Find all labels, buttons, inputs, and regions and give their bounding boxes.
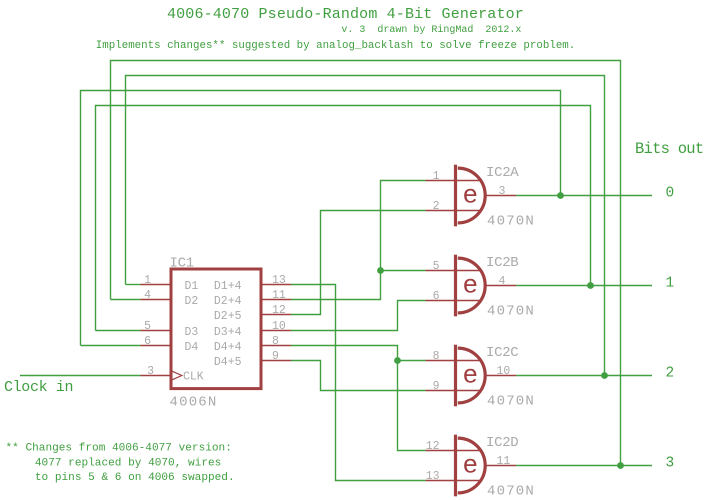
pin 3 output stub (486, 195, 516, 197)
pin 1 stub (426, 180, 482, 182)
pin 10 stub (262, 330, 291, 332)
junction dot bit3 (617, 462, 624, 469)
svg-text:13: 13 (272, 274, 286, 287)
IC1 shift register 4006N (141, 256, 292, 411)
svg-text:1: 1 (666, 276, 675, 292)
svg-text:2: 2 (433, 200, 440, 213)
svg-text:v. 3 drawn by RingMad 2012.x: v. 3 drawn by RingMad 2012.x (341, 24, 521, 36)
svg-text:D1: D1 (185, 280, 199, 293)
svg-text:10: 10 (272, 320, 286, 333)
junction dot bit1 (587, 282, 594, 289)
svg-text:IC2D: IC2D (486, 435, 518, 451)
IC1 body box (171, 269, 261, 389)
wire net IC1 pin 12 to IC2A pin 2 (291, 211, 426, 315)
svg-text:D2+4: D2+4 (214, 295, 242, 308)
wire to IC1 pin 6 (81, 345, 141, 347)
junction dot (394, 357, 401, 364)
svg-text:Implements changes** suggested: Implements changes** suggested by analog… (96, 40, 575, 52)
pin 8 stub (262, 345, 291, 347)
wire bit1 output row (516, 285, 652, 287)
wire to IC1 pin 4 (111, 299, 141, 301)
gate input bar (454, 435, 457, 497)
wire net IC1 pin 9 to IC2C pin 9 (291, 361, 426, 391)
wire bit0 output row (516, 195, 652, 197)
svg-text:4: 4 (499, 275, 506, 288)
svg-text:2: 2 (666, 366, 675, 382)
svg-text:0: 0 (666, 186, 675, 202)
svg-text:6: 6 (144, 335, 151, 348)
svg-text:3: 3 (499, 185, 506, 198)
svg-text:** Changes from 4006-4077 vers: ** Changes from 4006-4077 version: (6, 443, 232, 455)
pin 6 stub (426, 300, 482, 302)
pin 12 stub (262, 314, 291, 316)
svg-text:4070N: 4070N (487, 394, 535, 410)
svg-text:to pins 5 & 6 on 4006 swapped.: to pins 5 & 6 on 4006 swapped. (35, 472, 235, 484)
svg-text:IC1: IC1 (170, 256, 194, 272)
wire net IC1 pin 8 to IC2C pin 8 and IC2D pin 12 (291, 346, 426, 451)
svg-text:4070N: 4070N (487, 484, 535, 500)
pin 5 stub (426, 270, 482, 272)
svg-text:D1+4: D1+4 (214, 280, 242, 293)
svg-text:e: e (463, 450, 479, 480)
pin 11 stub (262, 299, 291, 301)
XOR gate IC2B (426, 255, 536, 320)
wire net IC1 pin 13 to IC2D pin 13 (291, 285, 426, 481)
pin 12 stub (426, 450, 482, 452)
svg-text:8: 8 (433, 350, 440, 363)
svg-text:10: 10 (497, 365, 511, 378)
svg-text:12: 12 (426, 440, 440, 453)
svg-text:D4+4: D4+4 (214, 341, 242, 354)
pin 10 output stub (486, 375, 516, 377)
wire rail2 feedback net to pin 1 and bit 2 (126, 76, 605, 376)
svg-text:D3+4: D3+4 (214, 326, 242, 339)
gate body arc (458, 258, 485, 313)
wire rail3 feedback net to pin 6 and bit 0 (81, 91, 561, 346)
gate input bar (454, 255, 457, 317)
svg-text:8: 8 (272, 335, 279, 348)
pin 6 stub (141, 345, 171, 347)
svg-text:e: e (463, 360, 479, 390)
wire to IC1 pin 1 (126, 284, 141, 286)
gate input bar (454, 165, 457, 227)
wire net IC1 pin 11 to IC2B pin 5 and IC2A pin 1 (291, 181, 426, 300)
pin 13 stub (426, 480, 482, 482)
svg-text:IC2B: IC2B (486, 255, 518, 271)
svg-text:IC2C: IC2C (486, 345, 518, 361)
gate body arc (458, 438, 485, 493)
svg-text:6: 6 (433, 290, 440, 303)
svg-text:e: e (463, 180, 479, 210)
svg-text:D2: D2 (185, 295, 199, 308)
pin 5 stub (141, 330, 171, 332)
XOR gate IC2D (426, 435, 536, 500)
XOR gate IC2C (426, 345, 536, 410)
pin 11 output stub (486, 465, 516, 467)
pin 1 stub (141, 284, 171, 286)
wire to IC1 pin 5 (96, 330, 141, 332)
svg-text:4: 4 (144, 289, 151, 302)
pin 9 stub (426, 390, 482, 392)
svg-text:5: 5 (433, 260, 440, 273)
gate input bar (454, 345, 457, 407)
svg-text:4006N: 4006N (170, 394, 218, 410)
svg-text:Clock in: Clock in (4, 379, 73, 396)
clock input triangle (170, 370, 181, 380)
svg-text:1: 1 (433, 170, 440, 183)
svg-text:11: 11 (272, 289, 286, 302)
svg-text:3: 3 (147, 365, 154, 378)
wire branch to IC2C pin 8 (398, 360, 426, 362)
svg-text:13: 13 (426, 470, 440, 483)
svg-text:4070N: 4070N (487, 214, 535, 230)
svg-text:11: 11 (497, 455, 511, 468)
svg-text:D2+5: D2+5 (214, 310, 242, 323)
junction dot (377, 267, 384, 274)
gate body arc (458, 168, 485, 223)
wire net IC1 pin 10 to IC2B pin 6 (291, 301, 426, 331)
svg-text:4006-4070 Pseudo-Random 4-Bit: 4006-4070 Pseudo-Random 4-Bit Generator (167, 6, 524, 23)
XOR gate IC2A (426, 165, 536, 230)
pin 3 stub (141, 375, 171, 377)
svg-text:1: 1 (144, 274, 151, 287)
junction dot bit0 (557, 192, 564, 199)
svg-text:CLK: CLK (183, 371, 204, 384)
wire clock input net (20, 375, 141, 377)
svg-text:9: 9 (272, 350, 279, 363)
svg-text:12: 12 (272, 304, 286, 317)
wire bit3 output row (516, 465, 652, 467)
svg-text:5: 5 (144, 320, 151, 333)
wire bit2 output row (516, 375, 652, 377)
pin 4 stub (141, 299, 171, 301)
svg-text:4077 replaced by 4070, wires: 4077 replaced by 4070, wires (35, 458, 221, 470)
pin 2 stub (426, 210, 482, 212)
pin 8 stub (426, 360, 482, 362)
pin 9 stub (262, 360, 291, 362)
svg-text:D4: D4 (185, 341, 199, 354)
svg-text:4070N: 4070N (487, 304, 535, 320)
wire rail4 feedback net to pin 5 and bit 1 (96, 106, 591, 331)
svg-text:e: e (463, 270, 479, 300)
wire branch to IC2B pin 5 (381, 270, 426, 272)
svg-text:9: 9 (433, 380, 440, 393)
wire rail1 feedback net to pin 4 and bit 3 (111, 61, 621, 466)
svg-text:D4+5: D4+5 (214, 356, 242, 369)
pin 13 stub (262, 284, 291, 286)
pin 4 output stub (486, 285, 516, 287)
svg-text:IC2A: IC2A (486, 165, 519, 181)
svg-text:3: 3 (666, 456, 675, 472)
svg-text:Bits out: Bits out (635, 140, 703, 158)
junction dot bit2 (601, 372, 608, 379)
svg-text:D3: D3 (185, 326, 199, 339)
gate body arc (458, 348, 485, 403)
